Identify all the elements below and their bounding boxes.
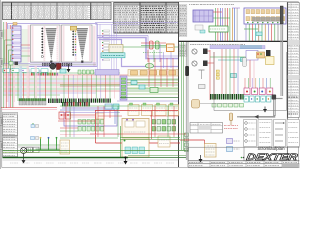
wire field horizontal [3, 72, 120, 74]
pink ribbon [32, 26, 34, 61]
contact bank K3 [78, 120, 81, 125]
section label [190, 44, 192, 46]
gray box below A1 [195, 25, 203, 30]
pink ribbon [63, 26, 65, 61]
pink ribbon [89, 26, 91, 61]
motor M1 [50, 63, 56, 69]
terminal chain X15 green [210, 94, 212, 100]
fuse cap F1 [70, 26, 76, 30]
legend box 4 [287, 120, 299, 147]
diamond chain X1 pins [41, 27, 43, 29]
lavender bus right [210, 46, 265, 49]
legend box 1 [244, 120, 257, 147]
red annotation text [224, 125, 226, 127]
micro boxes upper [31, 125, 35, 128]
wire bundle fan W2 [77, 28, 89, 61]
purple bus to loop [117, 100, 179, 102]
tree tip connector 1 [50, 61, 52, 64]
lavender band connector [95, 70, 119, 76]
connector strip X5 [3, 69, 10, 73]
purple drops center [163, 52, 165, 68]
green dashed link [143, 52, 163, 54]
left edge strip [0, 0, 2, 169]
ground arrow [67, 69, 71, 73]
resistor block R1 [150, 41, 154, 49]
green feed line thick [3, 157, 129, 159]
relay K2 [57, 64, 62, 70]
terminal chain X10 [48, 99, 49, 104]
speaker B3 circle [192, 49, 197, 54]
harness wires from A1 [215, 8, 217, 41]
yellow module [266, 57, 275, 65]
gray box small [199, 85, 206, 89]
cable elbow [240, 115, 274, 117]
bus wires below panels [30, 62, 96, 64]
page thumbnail 3 [0, 118, 6, 126]
legend box 3 [274, 120, 286, 147]
relay K1 box [209, 26, 228, 32]
dark green bus line [120, 96, 179, 98]
shielded cable gray band [252, 17, 281, 19]
component block 2 [203, 61, 208, 67]
bottom margin text [10, 162, 11, 164]
block X20 harness [245, 24, 247, 41]
pink sliver between panels [60, 26, 61, 61]
instrument cluster P1 [122, 119, 149, 138]
bus wire lavender [97, 38, 178, 59]
terminal chain X12 [78, 99, 79, 103]
left panel inner bottom line [3, 159, 179, 161]
green riser 3 [56, 139, 58, 151]
terminal strip panel X1 [31, 25, 61, 62]
bus wire purple thin [97, 36, 178, 57]
teal box2 [139, 85, 145, 89]
teal connector [256, 32, 262, 36]
section header text [189, 4, 190, 6]
signal labels lower [179, 44, 187, 46]
relay box K5 [122, 139, 149, 157]
resistor block R2 [156, 41, 160, 49]
module orange [257, 52, 265, 58]
tan node box [96, 113, 104, 119]
green bus wires bottom [3, 150, 189, 152]
vertical ribbon pink2 [35, 66, 38, 101]
speaker B4 circle [192, 61, 197, 66]
green verticals right of divider [181, 42, 183, 150]
teal node [200, 30, 205, 33]
ground symbol [23, 154, 25, 161]
wire bundle fan W1 [46, 28, 57, 61]
terminal strip A2 [12, 26, 21, 62]
fuse row band [128, 70, 178, 77]
dark component [266, 50, 271, 56]
parts list strip [288, 3, 299, 118]
contact bank K4 [152, 120, 156, 125]
wires center cluster [141, 42, 166, 44]
bus wire to right panel [95, 21, 178, 23]
red wire lower [58, 120, 95, 122]
pink ribbon bl1 [6, 64, 8, 102]
blue cluster [105, 104, 112, 109]
diode module V1 [167, 44, 175, 52]
gray capsule [243, 58, 247, 67]
bus wires left of frame [8, 25, 10, 108]
title block text [189, 162, 191, 164]
teal box right [231, 74, 237, 78]
bus wire lavender 2 [99, 40, 178, 67]
pink ribbon right [93, 26, 95, 66]
terminal strip panel X2 [62, 25, 93, 62]
connector X6 [11, 69, 19, 73]
green cross line [123, 46, 178, 48]
lime bus wires [127, 79, 179, 81]
options table [190, 123, 223, 134]
green wire runs [27, 149, 63, 151]
cable arrow [255, 115, 259, 119]
wiring table T1 [3, 3, 91, 20]
cable connector dark [272, 95, 277, 100]
pink ribbon [44, 26, 46, 61]
page thumbnail 4 [0, 142, 6, 150]
diamond chain X2 pins [72, 30, 74, 32]
panel divider vertical x=178 [178, 2, 180, 167]
sensor module B2 [109, 45, 123, 53]
page thumbnail 1 [0, 31, 6, 39]
tree tip connector 2 [81, 61, 83, 64]
green riser 2 [48, 139, 50, 151]
vertical drops mid [63, 75, 65, 99]
tiny dots corner [241, 157, 243, 159]
red wire to note box [180, 139, 205, 141]
red wire across bottom left [1, 107, 57, 109]
connector X7c [41, 69, 48, 73]
arrow down [263, 109, 267, 113]
logo DEXTER [246, 152, 299, 162]
green connector column right [185, 133, 189, 137]
wire crossbars [213, 11, 222, 13]
red wires right panel [209, 50, 211, 100]
trunk connector dark [185, 66, 189, 76]
legend table L1 [3, 113, 18, 136]
cable jog [274, 98, 283, 100]
module purple outline [246, 51, 258, 61]
red wire branch [148, 138, 150, 144]
pale green wash panel [3, 29, 29, 68]
distribution frame [8, 24, 98, 67]
lamp module row [128, 105, 139, 116]
red vertical center [151, 111, 153, 140]
ground drop [125, 158, 127, 162]
svg-text:Stromlaufplan: Stromlaufplan [257, 146, 285, 151]
note box N1 [205, 144, 217, 158]
sheet border frame [2, 2, 299, 168]
teal connector X8 [60, 69, 66, 73]
wires to magenta row [244, 78, 246, 88]
tan capsule right [229, 113, 232, 121]
vertical wires bottom center [65, 106, 67, 137]
teal wires [240, 45, 262, 47]
terminal chain X11 [19, 99, 21, 101]
connector row teal [244, 96, 249, 102]
green module [150, 88, 158, 93]
vertical trunk gray [185, 42, 187, 160]
page thumbnail 2 [0, 59, 6, 67]
enclosure box right [214, 52, 287, 111]
pink ribbon [75, 26, 77, 61]
connector X7 [21, 69, 29, 73]
signal label column [179, 5, 187, 7]
teal box right 2 [241, 58, 247, 62]
lavender terminal strip [120, 76, 127, 100]
component block [203, 49, 208, 55]
green connectors mid [78, 70, 81, 74]
pink ribbon [57, 26, 59, 61]
strip header blocks [288, 40, 299, 45]
connector X7b [31, 69, 39, 73]
cable terminal [280, 6, 283, 24]
brown pair [60, 84, 120, 86]
orange node [13, 23, 17, 26]
bus stub left [3, 63, 30, 65]
terminal row below panels [42, 63, 44, 66]
pink ribbon left [28, 25, 30, 62]
colored cell row X3 [31, 73, 33, 76]
connector row under chain [212, 104, 216, 108]
green riser 1 [40, 139, 42, 151]
green wire top right [244, 28, 258, 30]
connector icon 1 [227, 139, 233, 144]
strip bold rows [288, 96, 290, 98]
wires right panel mix [210, 56, 246, 58]
wires left to panel [21, 44, 30, 46]
green wires bottom right [128, 157, 186, 159]
connector icon 2 [227, 147, 233, 152]
ground arrow bottom [200, 155, 202, 159]
cable trunk vertical [280, 24, 282, 96]
wiring table T2 [91, 3, 111, 20]
horn H1 circle [21, 148, 27, 154]
antenna symbol [201, 70, 203, 79]
gray wire from capsule [200, 103, 240, 105]
green vertical K5 feed [120, 126, 122, 158]
green loop wires [5, 40, 13, 64]
vertical ribbon pink1 [27, 66, 30, 101]
title block table [188, 160, 299, 162]
red connector R11 [66, 112, 71, 119]
vertical drops [17, 70, 19, 101]
junction block X20 [244, 8, 286, 24]
relay S1b [34, 147, 40, 153]
magenta connector row [244, 88, 250, 95]
ground oval E1 [146, 64, 154, 69]
panel divider vertical x=287 [286, 2, 288, 160]
note box left [60, 140, 70, 154]
table T2 text [92, 5, 94, 7]
control unit A1 connector [193, 10, 213, 22]
wiring table T3 [114, 3, 179, 34]
title block left border [243, 147, 245, 161]
micro modules [9, 62, 13, 66]
left edge verticals [3, 22, 5, 108]
red verticals right [249, 60, 251, 87]
red verticals center [148, 58, 150, 87]
red pair lower [90, 133, 186, 135]
pink ribbon bl2 [13, 64, 15, 102]
blue micro boxes [31, 137, 35, 140]
terminal chain X13 [62, 102, 64, 107]
table T1 text [3, 5, 5, 7]
capsule connector [192, 100, 200, 109]
legend box 2 [258, 120, 272, 147]
legend table L2 [3, 136, 18, 158]
switch S1 [27, 147, 33, 153]
cable trunk lower [273, 98, 275, 116]
wire texture bottom center [60, 105, 178, 107]
lavender verticals [97, 24, 99, 70]
red wire main [95, 110, 178, 112]
bus loop purple [62, 108, 117, 126]
small module [158, 136, 170, 147]
fuse chain yellow [216, 70, 219, 72]
svg-text:DEXTER: DEXTER [246, 152, 299, 162]
vertical ribbon blue [20, 66, 23, 101]
title block top line [188, 146, 299, 148]
label EXXXX teal [101, 53, 125, 58]
table T3 text [115, 5, 117, 7]
teal box1 [131, 81, 137, 85]
red connector R10 [59, 112, 64, 119]
panel divider horizontal right y=41 [179, 40, 288, 42]
wire label chain [104, 30, 110, 32]
